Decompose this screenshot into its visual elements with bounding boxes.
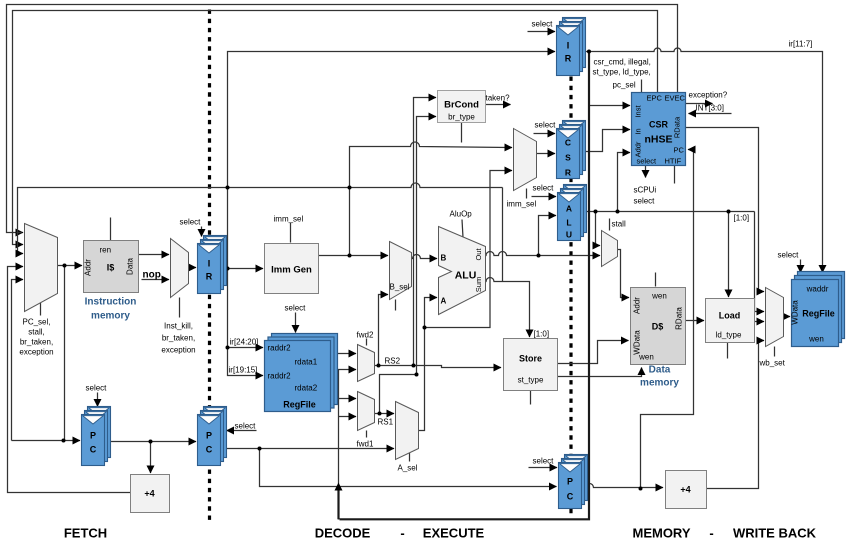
svg-text:C: C [567, 492, 574, 502]
svg-text:select: select [637, 157, 658, 166]
svg-text:Addr: Addr [634, 141, 643, 157]
svg-text:INT[3:0]: INT[3:0] [696, 104, 724, 113]
svg-text:Addr: Addr [84, 259, 93, 276]
svg-text:RS2: RS2 [385, 357, 401, 366]
svg-text:memory: memory [91, 311, 130, 322]
wire PC_sel out branch down to PC1 input [12, 266, 65, 441]
stub st_type [530, 391, 532, 405]
wire +4a output to PC_sel mux [8, 267, 131, 493]
wire Imm Gen out to B_sel [319, 255, 389, 257]
svg-text:HTIF: HTIF [665, 157, 682, 166]
mux wb_set [766, 288, 784, 347]
stub br_type [461, 123, 463, 143]
svg-text:Data: Data [126, 258, 135, 275]
wire EVEC exception redirect (top/left frame) [7, 5, 678, 233]
svg-text:fwd2: fwd2 [357, 331, 374, 340]
wire riser to CSR mux input2 [490, 171, 512, 188]
svg-text:raddr2: raddr2 [268, 344, 292, 353]
svg-text:P: P [90, 431, 96, 441]
wire into PC1 [64, 440, 81, 442]
svg-text:br_type: br_type [448, 113, 475, 122]
svg-text:EXECUTE: EXECUTE [423, 526, 485, 541]
svg-text:I: I [208, 259, 211, 269]
stub fwd2 [366, 339, 368, 346]
svg-text:Load: Load [719, 311, 741, 321]
svg-text:BrCond: BrCond [444, 100, 479, 111]
svg-text:+4: +4 [144, 489, 154, 499]
svg-text:B: B [441, 254, 447, 263]
wire drop to stall mux in1 [596, 212, 601, 246]
wire ALU reg out y211 bus [587, 211, 755, 213]
svg-text:I$: I$ [107, 263, 115, 273]
svg-text:wen: wen [638, 353, 654, 362]
wire ir[19:15] tap to raddr2 [228, 348, 264, 376]
blue captions [85, 297, 680, 389]
svg-text:nHSE: nHSE [644, 134, 672, 146]
wire wb mux out to RegFile WData [784, 316, 791, 318]
wire PC3 out to +4b (hop over wb bus) [582, 484, 664, 488]
svg-text:WData: WData [633, 330, 642, 355]
wire CSR mux out to CSR reg [537, 153, 556, 155]
wire riser x617 to nHSE Addr [618, 153, 631, 212]
svg-text:P: P [206, 431, 212, 441]
wire ALU Out to stall mux in2 [486, 252, 601, 256]
wire RS2 riser to B_sel input2 [379, 295, 389, 366]
stub imm_sel ImmGen [290, 223, 292, 243]
svg-text:PC: PC [674, 146, 685, 155]
svg-text:C: C [90, 445, 97, 455]
wire nop constant into kill mux [142, 279, 170, 281]
svg-text:waddr: waddr [806, 285, 829, 294]
wire A_sel out up to ALU A [419, 298, 438, 431]
svg-text:Addr: Addr [633, 297, 642, 314]
wire IR1 branch up to IR2 [228, 52, 556, 269]
svg-text:select: select [535, 121, 557, 130]
svg-text:ir[24:20]: ir[24:20] [230, 338, 259, 347]
wire B_sel out to ALU B (hop over twins) [412, 255, 438, 259]
svg-text:MEMORY: MEMORY [632, 526, 690, 541]
svg-text:WRITE BACK: WRITE BACK [733, 526, 817, 541]
svg-text:select: select [778, 251, 800, 260]
wire operand loop y327 [425, 188, 491, 328]
svg-text:RegFile: RegFile [802, 309, 835, 319]
wire drop x728 into Load [728, 212, 730, 298]
select stubs and control stubs [41, 32, 801, 468]
svg-text:+4: +4 [680, 485, 690, 495]
wire long decode feedback y=187 into PC_sel mux [18, 183, 503, 254]
box BrCond [438, 91, 486, 123]
svg-text:st_type: st_type [518, 376, 544, 385]
wire RegFile rdata out to fwd2 b [335, 369, 357, 371]
svg-text:AluOp: AluOp [450, 210, 473, 219]
stub stall select [609, 219, 611, 231]
wire PC1 loop to PC_sel mux [12, 280, 24, 441]
select arrow RegFile decode [295, 313, 297, 333]
svg-text:DECODE: DECODE [315, 526, 371, 541]
select arrow ALU reg [532, 196, 557, 198]
svg-text:select: select [533, 184, 555, 193]
svg-text:exception: exception [161, 346, 195, 355]
svg-text:ld_type: ld_type [716, 331, 742, 340]
svg-text:U: U [566, 230, 572, 240]
mux Inst_kill [171, 239, 189, 298]
stub AluOp [462, 220, 463, 238]
stub pc_sel label line [641, 80, 643, 93]
wire INT[3:0] input [689, 113, 732, 115]
svg-text:CSR: CSR [649, 120, 669, 130]
svg-text:RegFile: RegFile [283, 400, 316, 410]
svg-text:imm_sel: imm_sel [507, 200, 537, 209]
wire nHSE select down [645, 166, 647, 178]
wire RS1 riser to BrCond in2 [380, 117, 437, 414]
box Imm Gen [265, 244, 319, 294]
svg-text:csr_cmd, illegal,: csr_cmd, illegal, [594, 58, 651, 67]
select arrow WB RegFile [800, 260, 802, 273]
stage titles [64, 526, 817, 541]
svg-text:select: select [285, 304, 307, 313]
register CSR [557, 121, 586, 179]
wire PC2 branch down to PC3 [260, 449, 557, 487]
svg-text:select: select [235, 422, 257, 431]
wire stall mux out to D$ Addr [618, 250, 630, 298]
svg-text:wen: wen [651, 292, 667, 301]
svg-text:Sum: Sum [474, 277, 483, 292]
svg-text:WData: WData [791, 300, 800, 325]
wire RS1 out to A_sel [375, 413, 395, 415]
wire drop x502 to Sum wire [502, 188, 504, 282]
wire writeback riser taps to fwd1 b [339, 416, 357, 418]
stub D$ wen top [655, 273, 657, 287]
svg-text:[1:0]: [1:0] [734, 214, 750, 223]
wire Store out to D$ WData [558, 341, 629, 364]
wire +4b out up to wb mux in4 [707, 341, 765, 489]
svg-text:rdata2: rdata2 [295, 384, 318, 393]
select arrow CSR reg [534, 133, 556, 135]
svg-text:I: I [567, 41, 570, 51]
svg-text:Out: Out [474, 248, 483, 261]
svg-text:wb_set: wb_set [759, 359, 786, 368]
wire PC_sel mux out to I$ Addr [58, 265, 83, 267]
svg-text:select: select [86, 384, 108, 393]
wire PC2 out to A_sel input2 [222, 448, 395, 450]
svg-text:C: C [565, 138, 571, 148]
mux B_sel [390, 242, 412, 300]
stub I$ ren [110, 218, 112, 241]
wire RegFile rdata1 to fwd2 [335, 353, 357, 355]
CSR nHSE block [632, 93, 686, 166]
svg-text:pc_sel: pc_sel [613, 81, 636, 90]
register IR2 [557, 18, 586, 76]
select arrow IR1 [201, 227, 203, 237]
svg-text:B_sel: B_sel [390, 283, 410, 292]
mux stall [602, 231, 618, 267]
wire D$ RData to Load [686, 320, 705, 322]
stub PC_sel select [40, 302, 42, 316]
svg-text:RData: RData [675, 307, 684, 330]
mux fwd1 [358, 392, 375, 431]
svg-text:stall: stall [612, 220, 626, 229]
svg-text:select: select [533, 457, 555, 466]
svg-text:Inst_kill,: Inst_kill, [164, 322, 193, 331]
stub kill mux select [179, 298, 181, 318]
svg-text:C: C [206, 445, 213, 455]
register PC3 [559, 455, 588, 509]
stub fwd1 [366, 431, 368, 438]
wire riser x349 with y146 feed to CSR mux input1 [350, 142, 513, 255]
svg-text:Instruction: Instruction [85, 297, 137, 308]
wire ALU out branch up into ALU pipeline reg [539, 216, 557, 256]
wire I$ Data out to kill mux [139, 254, 170, 256]
thick bus arrowhead up into pc wire [335, 483, 343, 491]
stub wb_set [774, 347, 776, 357]
svg-text:br_taken,: br_taken, [20, 338, 53, 347]
svg-text:RS1: RS1 [378, 418, 394, 427]
svg-text:[1:0]: [1:0] [534, 330, 550, 339]
wire drop x754 to wb mux in2 [755, 212, 765, 312]
svg-text:A: A [441, 297, 447, 306]
register PC2 [198, 407, 227, 466]
svg-text:wen: wen [808, 335, 824, 344]
stub A_sel select [409, 453, 411, 462]
svg-text:Inst: Inst [634, 105, 643, 118]
register ALU [558, 185, 587, 241]
svg-text:R: R [565, 54, 572, 64]
svg-text:nop: nop [143, 270, 161, 281]
svg-text:-: - [709, 526, 713, 541]
svg-text:A: A [566, 204, 572, 214]
svg-text:FETCH: FETCH [64, 526, 107, 541]
svg-text:In: In [634, 128, 643, 134]
select arrow PC1 [97, 393, 99, 407]
svg-text:L: L [566, 218, 571, 228]
wire nHSE RData out to wb mux in1 [686, 128, 765, 292]
svg-text:A_sel: A_sel [398, 464, 418, 473]
stage boundary dashed line 2 (EXECUTE/MEMORY) [569, 77, 572, 518]
svg-text:taken?: taken? [486, 94, 511, 103]
wire exception? output [686, 103, 713, 105]
svg-text:select: select [180, 218, 202, 227]
svg-text:rdata1: rdata1 [295, 358, 318, 367]
svg-text:exception?: exception? [689, 91, 728, 100]
wire IR2 out ir[11:7] to WB RegFile waddr (hops over EPC/EVEC) [585, 48, 823, 273]
svg-text:sCPUi: sCPUi [634, 186, 657, 195]
wire branch down into +4a [150, 442, 152, 474]
wire kill mux out to IR1 [189, 267, 197, 269]
svg-text:fwd1: fwd1 [357, 440, 374, 449]
data cache D$ [631, 288, 686, 365]
svg-text:st_type, ld_type,: st_type, ld_type, [593, 68, 651, 77]
wire Store out2 to D$ wen [558, 368, 642, 377]
mux fwd2 [358, 345, 375, 382]
svg-text:select: select [634, 197, 656, 206]
register IR1 [198, 236, 227, 294]
box Store [504, 339, 558, 391]
svg-text:S: S [565, 153, 571, 163]
wire nHSE Inst input from instruction bus [589, 105, 630, 107]
svg-text:br_taken,: br_taken, [162, 334, 195, 343]
stub ld_type [727, 343, 729, 359]
svg-text:R: R [206, 272, 213, 282]
box +4 fetch [131, 475, 170, 513]
select arrow PC2 (from right) [227, 430, 257, 432]
ALU [439, 227, 486, 315]
stage boundary dashed line 1 (FETCH/DECODE) [208, 10, 211, 522]
svg-text:raddr2: raddr2 [268, 372, 292, 381]
wire IR1 out to Imm Gen [222, 268, 264, 270]
wire ir[24:20] tap to raddr2 [228, 269, 264, 348]
svg-text:-: - [400, 526, 404, 541]
svg-text:Data: Data [649, 365, 671, 376]
wire RS2 out to Store [375, 366, 502, 368]
svg-text:exception: exception [19, 348, 53, 357]
register file (writeback) stacked [792, 272, 845, 347]
svg-text:D$: D$ [652, 322, 664, 332]
box +4 memory [666, 471, 707, 509]
instruction cache I$ [84, 241, 139, 293]
mux PC_sel [25, 224, 58, 312]
svg-text:R: R [565, 168, 571, 178]
wire nHSE HTIF stub [674, 166, 676, 184]
svg-text:select: select [532, 20, 554, 29]
mux A_sel [396, 402, 419, 460]
svg-text:RData: RData [673, 116, 682, 138]
thick writeback bus [339, 52, 590, 520]
svg-text:ir[11:7]: ir[11:7] [789, 40, 813, 49]
svg-text:EVEC: EVEC [665, 94, 686, 103]
wire PC1 out to PC2 [105, 441, 197, 443]
svg-text:Imm Gen: Imm Gen [271, 265, 312, 276]
wire writeback riser taps to fwd1 a [339, 398, 357, 400]
svg-text:stall,: stall, [28, 328, 44, 337]
select arrow PC3 [529, 467, 558, 469]
svg-text:imm_sel: imm_sel [274, 215, 304, 224]
stub B_sel select [395, 300, 397, 311]
wire Load out to wb mux in3 [755, 321, 765, 323]
register file (decode) stacked [265, 334, 338, 412]
wire PC3 out loop up to nHSE PC port [641, 150, 694, 489]
register PC1 [82, 407, 111, 466]
stub imm_sel CSR mux [526, 189, 528, 199]
box Load [706, 299, 755, 343]
svg-text:P: P [567, 477, 573, 487]
wire BrCond taken? output [486, 104, 511, 106]
mux CSR src [514, 129, 537, 191]
wire EPC redirect (second frame line) [13, 11, 658, 245]
wire ALU Sum out to Store top [486, 278, 530, 338]
svg-text:Store: Store [519, 354, 542, 364]
wire writeback riser x338 [338, 370, 340, 520]
svg-text:ir[19:15]: ir[19:15] [229, 366, 258, 375]
svg-text:memory: memory [640, 378, 679, 389]
svg-text:ren: ren [100, 246, 112, 255]
select arrow IR2 [528, 31, 556, 33]
svg-text:PC_sel,: PC_sel, [22, 318, 50, 327]
wire CSR reg out to nHSE In port [580, 130, 631, 152]
wire twin riser RS2 to BrCond in1 [414, 98, 437, 366]
svg-text:EPC: EPC [647, 94, 663, 103]
